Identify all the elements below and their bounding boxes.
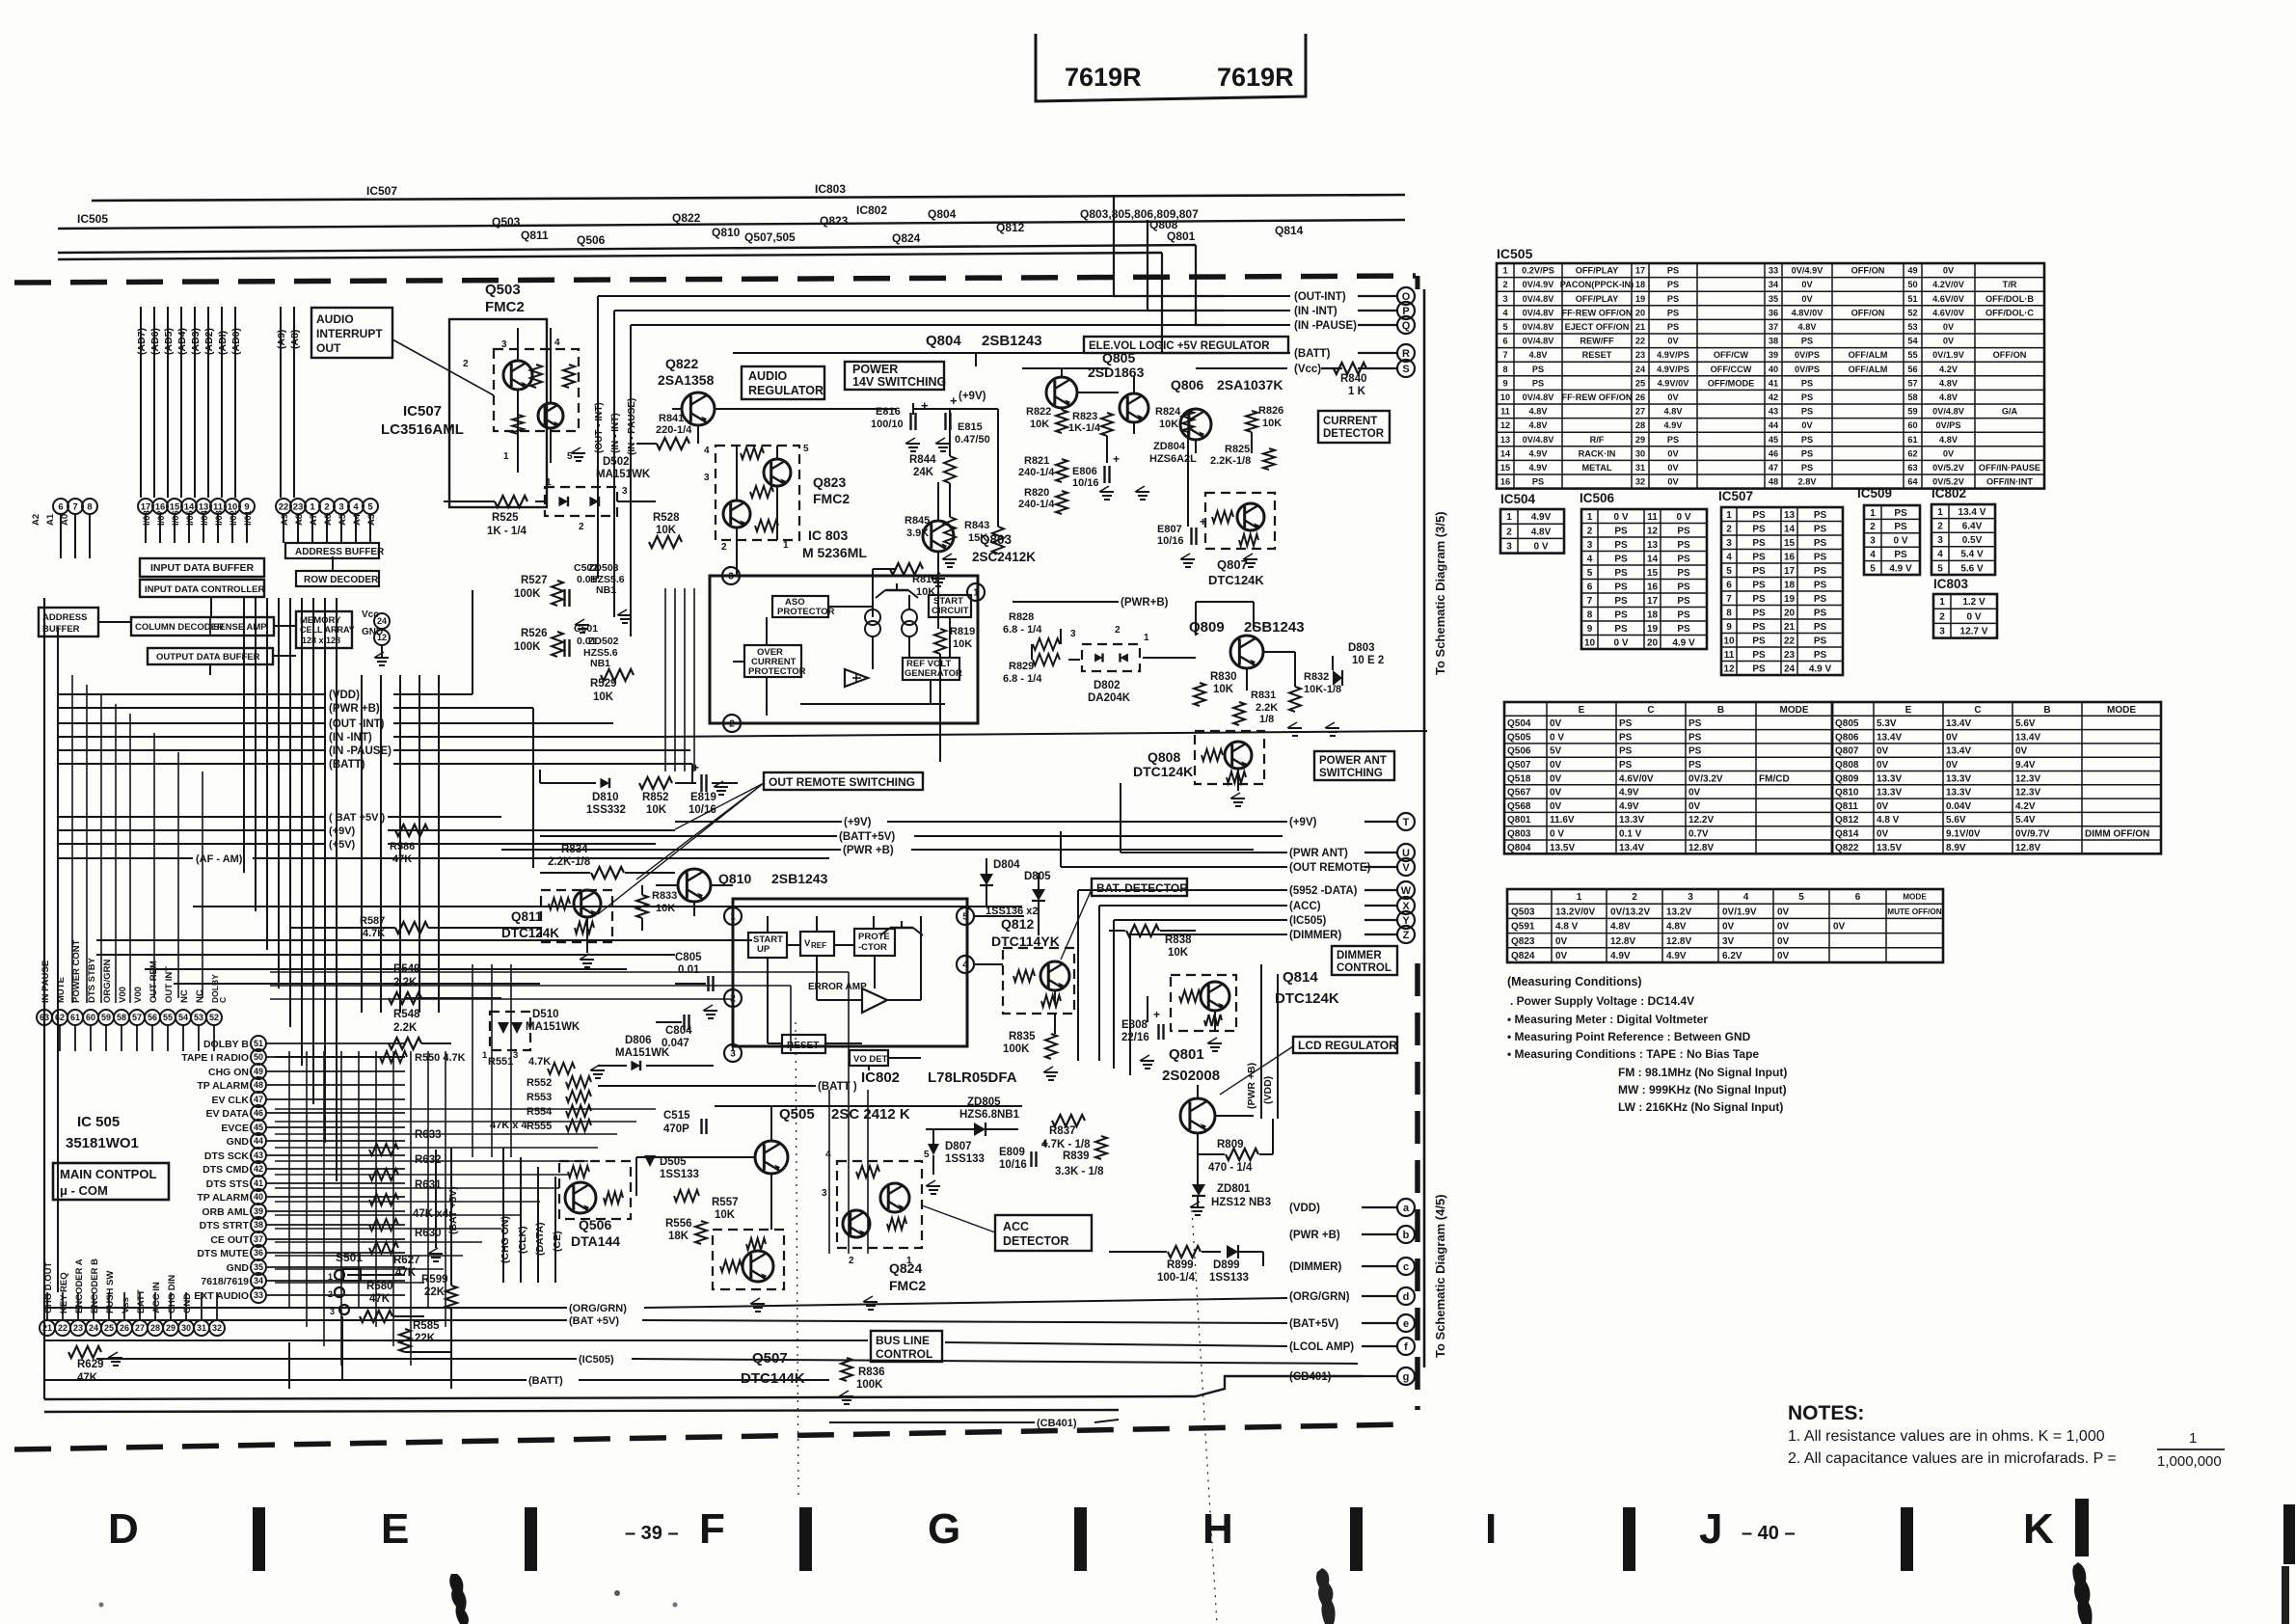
IC505 right pin column 33-51 <box>181 1036 405 1303</box>
svg-text:FM/CD: FM/CD <box>1759 773 1790 784</box>
svg-text:4.9V/PS: 4.9V/PS <box>1657 365 1689 374</box>
svg-text:PS: PS <box>1688 760 1702 771</box>
svg-text:0V: 0V <box>1667 448 1679 458</box>
svg-text:C: C <box>1647 705 1654 716</box>
svg-text:1: 1 <box>546 477 552 488</box>
svg-text:2.2K-1/8: 2.2K-1/8 <box>548 856 591 868</box>
svg-text:CONTROL: CONTROL <box>876 1347 932 1361</box>
svg-text:4.9V: 4.9V <box>1664 420 1684 430</box>
svg-text:(PWR+B): (PWR+B) <box>1121 597 1169 609</box>
svg-text:8: 8 <box>1726 608 1732 618</box>
svg-text:• Measuring Point Reference :: • Measuring Point Reference : Between GN… <box>1507 1030 1751 1043</box>
svg-text:E806: E806 <box>1072 466 1097 477</box>
svg-text:10: 10 <box>1500 392 1510 402</box>
svg-text:5.6 V: 5.6 V <box>1960 563 1984 574</box>
wire bus left horizontal runs <box>58 590 1427 868</box>
svg-text:25: 25 <box>104 1323 114 1333</box>
wire top bus line D <box>58 253 1162 259</box>
svg-text:12.7 V: 12.7 V <box>1960 627 1988 637</box>
svg-text:19: 19 <box>1647 624 1659 635</box>
transistor Q811 DTC124K module <box>541 890 612 942</box>
svg-text:4.8V: 4.8V <box>1531 527 1552 537</box>
svg-text:E: E <box>381 1505 409 1553</box>
svg-text:(IN -INT): (IN -INT) <box>329 732 372 744</box>
svg-text:3: 3 <box>1870 536 1876 547</box>
transistor Q824 FMC2 module <box>837 1161 922 1248</box>
svg-text:2: 2 <box>1632 892 1637 903</box>
svg-text:OUT INT: OUT INT <box>164 966 175 1003</box>
svg-text:9.1V/0V: 9.1V/0V <box>1946 828 1981 839</box>
svg-text:64: 64 <box>1907 477 1918 487</box>
svg-text:15: 15 <box>1500 463 1510 473</box>
svg-text:0 V: 0 V <box>1533 542 1548 553</box>
svg-text:14: 14 <box>1784 524 1796 534</box>
svg-text:OFF/DOL·C: OFF/DOL·C <box>1985 308 2034 317</box>
svg-text:7: 7 <box>1726 594 1732 605</box>
svg-text:21: 21 <box>1784 622 1796 633</box>
svg-text:4.9V/0V: 4.9V/0V <box>1658 378 1690 388</box>
svg-text:1: 1 <box>1870 508 1876 519</box>
svg-text:DTS CMD: DTS CMD <box>203 1164 249 1176</box>
svg-text:(IN -INT): (IN -INT) <box>1294 306 1337 317</box>
svg-text:2.2K: 2.2K <box>393 977 418 988</box>
svg-text:R834: R834 <box>561 844 588 855</box>
svg-text:E819: E819 <box>690 792 716 803</box>
svg-text:D505: D505 <box>660 1156 687 1168</box>
svg-text:(IN - INT): (IN - INT) <box>610 413 621 453</box>
svg-text:4.8V: 4.8V <box>1610 922 1631 933</box>
svg-text:R831: R831 <box>1251 690 1276 701</box>
wire bus drop to right terminals <box>1114 195 1225 296</box>
svg-text:0V: 0V <box>1943 337 1955 346</box>
svg-text:34: 34 <box>1769 280 1779 289</box>
svg-text:• Measuring Conditions : TAPE: • Measuring Conditions : TAPE : No Bias … <box>1507 1047 1759 1061</box>
svg-text:18K: 18K <box>668 1231 689 1242</box>
svg-text:4: 4 <box>353 501 359 512</box>
svg-text:. Power Supply Voltage : DC14.: . Power Supply Voltage : DC14.4V <box>1510 994 1694 1008</box>
svg-text:(LCOL AMP): (LCOL AMP) <box>1289 1341 1354 1353</box>
svg-text:1: 1 <box>328 1272 333 1282</box>
svg-text:0V: 0V <box>1550 801 1562 812</box>
svg-text:10 E 2: 10 E 2 <box>1352 655 1384 666</box>
svg-text:Q814: Q814 <box>1275 224 1304 237</box>
svg-text:Q808: Q808 <box>1148 749 1180 765</box>
svg-text:8: 8 <box>87 501 92 512</box>
ground regulator cluster <box>576 624 589 626</box>
svg-text:13.3V: 13.3V <box>1946 773 1971 784</box>
svg-text:+: + <box>950 393 958 408</box>
svg-text:33: 33 <box>254 1290 263 1300</box>
svg-text:Q805: Q805 <box>1835 718 1859 729</box>
svg-text:21: 21 <box>42 1323 52 1333</box>
svg-text:Z: Z <box>1403 930 1410 941</box>
svg-text:50: 50 <box>1907 280 1917 289</box>
svg-text:PS: PS <box>1752 663 1766 674</box>
svg-text:3: 3 <box>622 486 628 497</box>
ruler letters and ticks <box>108 1499 2295 1571</box>
svg-text:0V/9.7V: 0V/9.7V <box>2015 828 2050 839</box>
svg-text:20: 20 <box>1784 608 1796 618</box>
wire top bus line A <box>92 195 1405 201</box>
svg-text:IC506: IC506 <box>1580 491 1615 505</box>
svg-text:5: 5 <box>367 501 373 512</box>
svg-text:IC802: IC802 <box>861 1069 900 1086</box>
svg-text:10/16: 10/16 <box>1072 477 1099 489</box>
svg-text:OFF/ON: OFF/ON <box>1851 308 1885 317</box>
svg-text:Q804: Q804 <box>926 333 961 349</box>
svg-text:(VDD): (VDD) <box>329 690 360 701</box>
svg-text:R548: R548 <box>393 1009 420 1020</box>
box REF VOLT GENERATOR <box>903 658 959 680</box>
svg-text:IC507: IC507 <box>403 403 442 420</box>
svg-text:PS: PS <box>1667 294 1679 304</box>
svg-text:+: + <box>921 398 929 413</box>
svg-text:240-1/4: 240-1/4 <box>1018 499 1055 510</box>
svg-text:MUTE OFF/ON: MUTE OFF/ON <box>1887 907 1941 916</box>
svg-text:100/10: 100/10 <box>871 419 904 430</box>
svg-text:4.9 V: 4.9 V <box>1672 637 1695 648</box>
svg-text:0V/4.9V: 0V/4.9V <box>1523 280 1555 289</box>
svg-text:0 V: 0 V <box>1550 732 1564 743</box>
wires right top cluster <box>976 353 1292 527</box>
svg-text:5: 5 <box>1587 568 1593 579</box>
svg-text:R832: R832 <box>1304 671 1329 683</box>
wires Q503 internals <box>512 328 575 473</box>
svg-text:40: 40 <box>254 1192 263 1202</box>
svg-text:IC803: IC803 <box>1933 577 1969 591</box>
ground at memory block <box>381 645 383 658</box>
svg-text:I/02: I/02 <box>229 510 239 526</box>
svg-text:25: 25 <box>1635 378 1645 388</box>
svg-text:10K: 10K <box>1168 947 1189 959</box>
svg-text:OFF/IN·PAUSE: OFF/IN·PAUSE <box>1979 463 2040 473</box>
wire top bus line C <box>58 245 1196 253</box>
svg-text:4.8V: 4.8V <box>1939 378 1958 388</box>
svg-text:PS: PS <box>1814 566 1827 577</box>
svg-text:4.8V: 4.8V <box>1939 435 1958 445</box>
svg-text:PS: PS <box>1752 622 1766 633</box>
svg-text:Q810: Q810 <box>712 226 741 239</box>
svg-text:47: 47 <box>1769 463 1778 473</box>
svg-text:13.2V/0V: 13.2V/0V <box>1555 907 1595 917</box>
svg-text:PS: PS <box>1801 392 1813 402</box>
svg-text:CHG D.OUT: CHG D.OUT <box>43 1262 54 1314</box>
resistor R840 1K <box>1321 367 1342 369</box>
box BAT.DETECTOR <box>1092 879 1187 896</box>
svg-text:+: + <box>1153 1008 1160 1021</box>
svg-text:+: + <box>1200 515 1206 528</box>
svg-text:PS: PS <box>1752 636 1766 646</box>
svg-text:REGULATOR: REGULATOR <box>748 384 824 397</box>
svg-text:GND: GND <box>227 1262 250 1274</box>
svg-text:DIMM OFF/ON: DIMM OFF/ON <box>2085 828 2149 839</box>
svg-text:OUT: OUT <box>316 341 341 355</box>
box INPUT DATA BUFFER <box>140 558 264 577</box>
svg-text:23: 23 <box>1784 650 1796 661</box>
svg-text:0V: 0V <box>1943 322 1955 332</box>
IC802 block box <box>733 899 967 1046</box>
svg-text:12: 12 <box>1500 420 1510 430</box>
svg-text:55: 55 <box>163 1013 173 1022</box>
svg-text:1: 1 <box>1937 507 1943 518</box>
svg-text:4.8V: 4.8V <box>1798 322 1818 332</box>
svg-text:(DIMMER): (DIMMER) <box>1289 930 1341 941</box>
svg-text:1: 1 <box>1502 266 1507 276</box>
box START UP <box>748 933 787 958</box>
svg-text:4.9V: 4.9V <box>1529 463 1549 473</box>
svg-text:22: 22 <box>1635 337 1645 346</box>
svg-text:CIRCUIT: CIRCUIT <box>932 606 969 616</box>
svg-text:PROTECTOR: PROTECTOR <box>748 666 806 677</box>
svg-text:A7: A7 <box>309 514 319 526</box>
box ASO PROTECTOR <box>772 596 828 617</box>
svg-text:2: 2 <box>328 1289 333 1299</box>
wire verticals from top bus <box>44 598 439 1399</box>
svg-text:4: 4 <box>962 961 968 971</box>
svg-text:NB1: NB1 <box>590 658 610 669</box>
svg-text:Q506: Q506 <box>579 1217 611 1232</box>
svg-text:7618/7619: 7618/7619 <box>201 1276 249 1287</box>
svg-text:MW : 999KHz (No Signal Input): MW : 999KHz (No Signal Input) <box>1618 1083 1787 1096</box>
svg-text:4.2V: 4.2V <box>2015 801 2036 812</box>
svg-text:470P: 470P <box>663 1123 689 1135</box>
svg-text:1: 1 <box>1577 892 1582 903</box>
svg-text:INTERRUPT: INTERRUPT <box>316 327 383 340</box>
svg-text:0V: 0V <box>1555 951 1568 961</box>
svg-text:Q506: Q506 <box>1507 746 1531 757</box>
svg-text:10/16: 10/16 <box>1157 535 1184 547</box>
svg-text:11: 11 <box>1647 512 1658 523</box>
resistor R852 10K <box>639 777 672 789</box>
svg-text:100K: 100K <box>514 588 541 600</box>
svg-text:E815: E815 <box>958 421 983 433</box>
svg-text:36: 36 <box>254 1248 263 1258</box>
svg-text:DOLBY B: DOLBY B <box>203 1039 249 1050</box>
svg-text:(CLK): (CLK) <box>517 1226 528 1254</box>
svg-text:10K-1/8: 10K-1/8 <box>1304 684 1341 695</box>
svg-text:1: 1 <box>973 588 979 599</box>
svg-text:57: 57 <box>132 1013 142 1022</box>
svg-text:3: 3 <box>338 501 343 512</box>
svg-text:22: 22 <box>58 1323 68 1333</box>
svg-text:7: 7 <box>72 501 77 512</box>
svg-text:13: 13 <box>1500 435 1510 445</box>
svg-text:(ORG/GRN): (ORG/GRN) <box>1289 1291 1350 1303</box>
svg-text:Q810: Q810 <box>1835 788 1859 798</box>
svg-text:Q823: Q823 <box>820 214 849 228</box>
svg-text:32: 32 <box>212 1323 222 1333</box>
svg-text:4.9V/PS: 4.9V/PS <box>1657 350 1689 360</box>
svg-text:RESET: RESET <box>787 1041 819 1051</box>
svg-text:1 K: 1 K <box>1348 386 1366 397</box>
svg-text:R586: R586 <box>390 841 415 853</box>
wire bus BAT+5V +9V +5V <box>58 812 675 851</box>
dashed boundary right lower <box>1415 963 1420 1410</box>
svg-text:Q814: Q814 <box>1835 828 1859 839</box>
svg-text:(AD4): (AD4) <box>176 328 188 355</box>
svg-text:5V: 5V <box>1550 746 1562 757</box>
svg-text:(AD3): (AD3) <box>190 328 202 355</box>
wire mesh left edge verticals <box>72 675 203 1003</box>
svg-text:62: 62 <box>55 1013 65 1022</box>
svg-text:47K: 47K <box>77 1372 98 1384</box>
svg-text:7619R: 7619R <box>1065 63 1142 92</box>
svg-text:Q803: Q803 <box>1507 828 1531 839</box>
svg-text:2.2K: 2.2K <box>1256 702 1278 714</box>
svg-text:R841: R841 <box>659 413 684 424</box>
svg-text:C515: C515 <box>663 1110 690 1122</box>
svg-text:0V: 0V <box>1688 801 1701 812</box>
svg-text:36: 36 <box>1769 308 1778 317</box>
svg-text:1SS133: 1SS133 <box>1209 1272 1249 1284</box>
svg-text:4.9 V: 4.9 V <box>1889 563 1912 574</box>
svg-text:PACON(PPCK-IN): PACON(PPCK-IN) <box>1560 280 1634 289</box>
svg-text:2. All capacitance values ar: 2. All capacitance values are in microfa… <box>1788 1450 2117 1467</box>
svg-text:e: e <box>1403 1318 1409 1330</box>
svg-text:R829: R829 <box>1009 661 1034 672</box>
svg-text:47K: 47K <box>369 1293 391 1305</box>
svg-text:1K - 1/4: 1K - 1/4 <box>487 526 527 537</box>
svg-text:PS: PS <box>1752 594 1766 605</box>
node labels on top bus <box>77 182 1304 247</box>
svg-text:R555: R555 <box>527 1121 552 1132</box>
svg-text:15: 15 <box>1784 538 1796 549</box>
svg-text:PS: PS <box>1667 266 1679 276</box>
svg-text:19: 19 <box>1784 594 1796 605</box>
svg-text:POWER: POWER <box>852 363 898 376</box>
svg-text:2: 2 <box>324 501 329 512</box>
svg-text:1. All resistance values are: 1. All resistance values are in ohms. K … <box>1788 1428 2105 1445</box>
svg-text:7: 7 <box>1587 596 1593 607</box>
svg-text:DTA144: DTA144 <box>571 1233 620 1249</box>
svg-text:42: 42 <box>254 1164 263 1174</box>
svg-text:10: 10 <box>1723 636 1735 646</box>
svg-text:DTC124K: DTC124K <box>1275 990 1339 1007</box>
svg-text:240-1/4: 240-1/4 <box>1018 467 1055 478</box>
svg-text:46: 46 <box>254 1108 263 1118</box>
svg-text:10K: 10K <box>715 1209 736 1221</box>
svg-text:47K: 47K <box>392 853 412 865</box>
svg-text:PS: PS <box>1752 566 1766 577</box>
svg-text:(Measuring Conditions): (Measuring Conditions) <box>1507 975 1642 988</box>
svg-text:IC 803: IC 803 <box>808 528 848 543</box>
svg-text:A6: A6 <box>323 514 334 526</box>
svg-text:R840: R840 <box>1340 373 1367 385</box>
svg-text:REF: REF <box>811 941 826 950</box>
svg-text:(+5V): (+5V) <box>329 839 356 851</box>
svg-text:0 V: 0 V <box>1893 536 1907 547</box>
svg-text:0V: 0V <box>1550 788 1562 798</box>
svg-text:METAL: METAL <box>1582 463 1612 473</box>
wire mesh mid column verticals <box>473 588 868 1254</box>
wires IC802 right <box>974 916 1055 1034</box>
IC505 bottom pin row 21-32 <box>40 1259 225 1336</box>
svg-text:2.2K-1/8: 2.2K-1/8 <box>1210 455 1251 467</box>
box AUDIO REGULATOR <box>742 366 824 399</box>
wire AUDIO INTERRUPT pointer <box>392 339 494 395</box>
svg-text:IN PAUSE: IN PAUSE <box>41 961 51 1003</box>
svg-text:10K: 10K <box>1262 418 1282 429</box>
svg-text:2: 2 <box>721 542 727 553</box>
svg-text:0V: 0V <box>1801 420 1813 430</box>
svg-text:PS: PS <box>1614 554 1628 564</box>
svg-text:0V/PS: 0V/PS <box>1795 365 1820 374</box>
svg-text:24K: 24K <box>913 467 934 478</box>
svg-text:4: 4 <box>1587 554 1593 564</box>
svg-text:PS: PS <box>1814 510 1827 521</box>
svg-text:K: K <box>2023 1505 2054 1553</box>
wire cluster above IC505 <box>270 972 849 1090</box>
svg-text:Q507: Q507 <box>752 1350 788 1367</box>
svg-text:R528: R528 <box>653 512 680 524</box>
svg-text:DTC114YK: DTC114YK <box>991 934 1060 949</box>
svg-text:MUTE: MUTE <box>56 977 67 1003</box>
svg-text:HZS12 NB3: HZS12 NB3 <box>1211 1197 1271 1208</box>
svg-text:0 V: 0 V <box>1676 512 1690 523</box>
svg-text:4: 4 <box>1743 892 1749 903</box>
svg-text:R819: R819 <box>950 626 975 637</box>
svg-text:58: 58 <box>1907 392 1917 402</box>
svg-text:12.8V: 12.8V <box>1688 843 1714 853</box>
transistor Q807 DTC124K module <box>1205 493 1275 549</box>
svg-text:13.4V: 13.4V <box>1619 843 1644 853</box>
svg-text:R627: R627 <box>393 1255 420 1266</box>
svg-text:2SD1863: 2SD1863 <box>1088 365 1145 380</box>
svg-text:(ORG/GRN): (ORG/GRN) <box>569 1303 627 1314</box>
svg-text:CE OUT: CE OUT <box>210 1234 249 1246</box>
svg-text:(IN -PAUSE): (IN -PAUSE) <box>1294 320 1357 332</box>
svg-text:ZD804: ZD804 <box>1153 441 1186 452</box>
svg-text:0V: 0V <box>1555 936 1568 947</box>
svg-text:21: 21 <box>1635 322 1645 332</box>
svg-text:0.47/50: 0.47/50 <box>955 434 990 446</box>
svg-text:3V: 3V <box>1722 936 1735 947</box>
svg-text:PS: PS <box>1677 624 1690 635</box>
svg-text:2: 2 <box>1939 611 1945 622</box>
svg-text:F: F <box>699 1505 725 1553</box>
svg-text:PS: PS <box>1894 522 1907 532</box>
svg-text:R830: R830 <box>1210 671 1237 683</box>
svg-text:220-1/4: 220-1/4 <box>656 424 692 436</box>
svg-text:A4: A4 <box>352 513 363 526</box>
svg-text:1: 1 <box>2189 1430 2197 1447</box>
table Q503 Q591 Q823 Q824 <box>1507 889 1943 962</box>
box VREF <box>800 932 834 956</box>
svg-text:R824: R824 <box>1155 406 1181 418</box>
svg-text:0V/PS: 0V/PS <box>1795 350 1820 360</box>
svg-text:DIMMER: DIMMER <box>1337 950 1382 961</box>
svg-text:ENCODER A: ENCODER A <box>74 1259 85 1313</box>
svg-text:BUFFER: BUFFER <box>42 624 80 635</box>
svg-text:IC509: IC509 <box>1857 486 1892 501</box>
svg-text:DTS STRT: DTS STRT <box>200 1220 250 1232</box>
svg-text:b: b <box>1403 1230 1410 1241</box>
svg-text:VO DET: VO DET <box>853 1054 888 1065</box>
svg-text:INPUT DATA BUFFER: INPUT DATA BUFFER <box>150 562 255 574</box>
box ADDRESS BUFFER left <box>39 608 98 636</box>
svg-text:24: 24 <box>1635 365 1646 374</box>
svg-text:R838: R838 <box>1165 934 1192 946</box>
svg-text:1SS332: 1SS332 <box>586 804 626 816</box>
svg-text:DETECTOR: DETECTOR <box>1003 1234 1069 1248</box>
svg-text:Q507: Q507 <box>1507 760 1531 771</box>
svg-text:T/R: T/R <box>2003 280 2017 289</box>
svg-text:Q507,505: Q507,505 <box>744 230 796 244</box>
box ADDRESS BUFFER <box>285 543 379 558</box>
resistor R587 4.7K <box>395 922 428 934</box>
svg-text:d: d <box>1403 1291 1410 1303</box>
svg-text:46: 46 <box>1769 448 1778 458</box>
